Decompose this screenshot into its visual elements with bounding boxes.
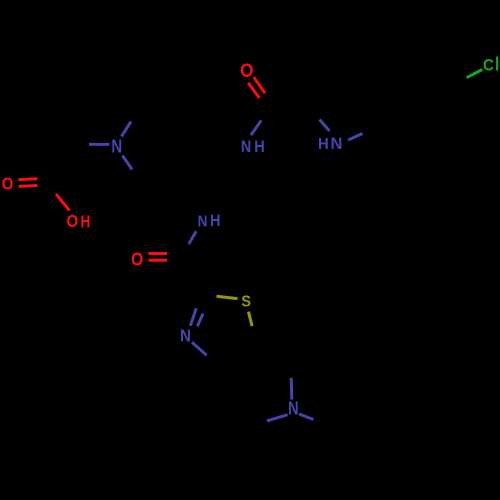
svg-text:H: H [254, 138, 264, 156]
bond: C=O double bond left line (amide 1) [248, 83, 259, 98]
bond: N piperidine bond left [89, 143, 110, 146]
svg-text:N: N [198, 214, 208, 231]
svg-text:O: O [131, 249, 143, 269]
bond: C=O double bond lower line (carboxylic acid) [19, 184, 38, 188]
bond: HN-C7a bond (indole) [348, 134, 362, 141]
bond: N5-C4 bond up [290, 378, 294, 400]
svg-text:N: N [111, 136, 122, 157]
bond: C2=N3 double bond line B (thiazole) [197, 314, 203, 327]
bond: NH-C(=O) bond (amide 1) [251, 120, 261, 135]
bond: C-OH bond (carboxylic acid) [56, 194, 70, 211]
bond: C2=N3 double bond line A (thiazole) [190, 308, 196, 326]
svg-text:N: N [288, 398, 299, 419]
svg-text:H: H [210, 212, 220, 230]
svg-text:H: H [81, 213, 91, 232]
bond: HN-C2 bond (indole) [320, 120, 330, 132]
bond: S-C2 bond (thiazole) [217, 296, 238, 298]
bond: C=O double bond upper line (carboxylic acid) [19, 177, 38, 181]
svg-text:l: l [495, 53, 499, 75]
bond: NH-C(=O) bond (amide 2) [189, 231, 196, 244]
bond: C=O double bond lower line (amide 2) [149, 259, 168, 262]
svg-text:N: N [241, 138, 251, 156]
bond: N piperidine bond upper-right [122, 122, 132, 137]
svg-text:S: S [241, 293, 251, 311]
bond: Cl-C bond [467, 70, 483, 78]
bond: N5-CH3 bond down-right [299, 414, 313, 420]
svg-text:O: O [240, 60, 253, 81]
bond: S-C7a bond (thiazole) [248, 312, 252, 327]
bond: N5-C6 bond down-left [267, 415, 288, 421]
bond: N piperidine bond lower-right [123, 156, 133, 170]
svg-text:O: O [66, 212, 78, 231]
svg-text:N: N [331, 135, 343, 153]
svg-text:O: O [2, 175, 14, 194]
bond: C=O double bond right line (amide 1) [254, 77, 265, 93]
svg-text:C: C [483, 56, 494, 75]
bond: N3-C3a bond (thiazole) [192, 342, 207, 355]
bond: C=O double bond upper line (amide 2) [149, 252, 168, 255]
svg-text:N: N [180, 327, 191, 346]
svg-text:H: H [318, 136, 329, 153]
